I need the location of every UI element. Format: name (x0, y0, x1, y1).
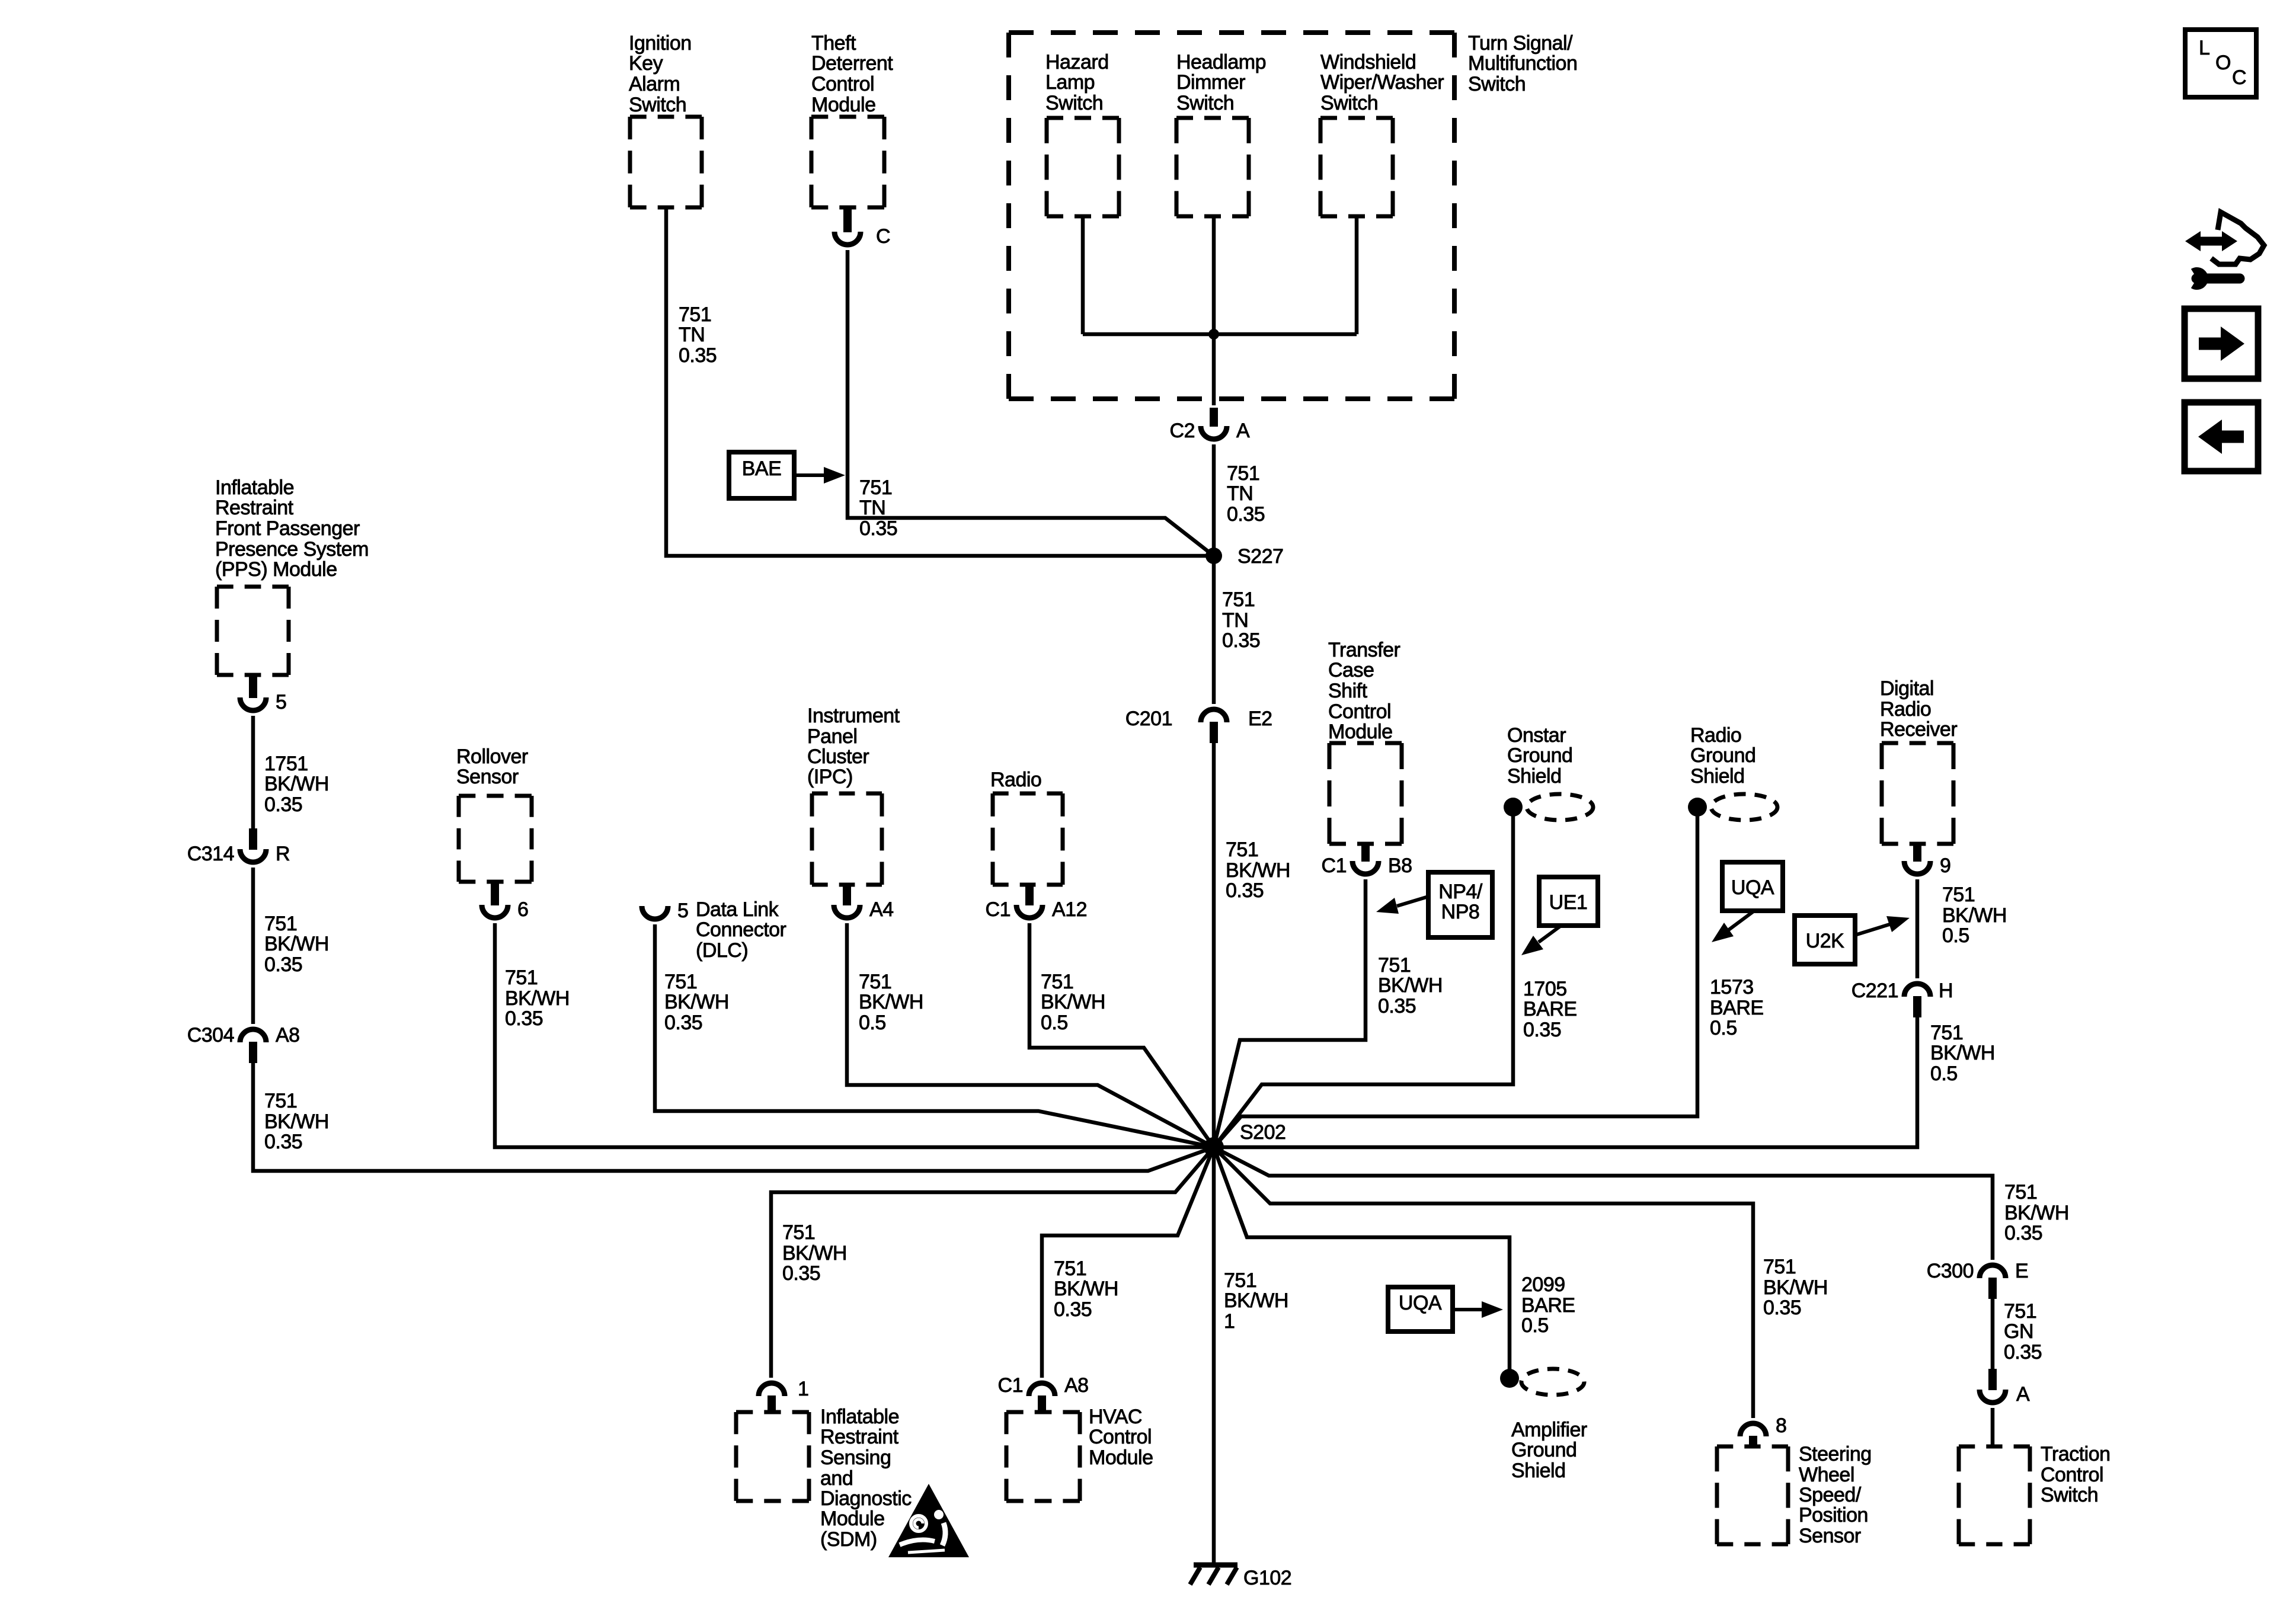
svg-text:0.35: 0.35 (1763, 1297, 1801, 1319)
svg-text:BARE: BARE (1523, 998, 1577, 1020)
label: Inflatable Restraint Sensing and Diagnostic Module (SDM) (820, 1406, 912, 1551)
svg-text:Headlamp: Headlamp (1176, 51, 1266, 73)
component: Transfer Case Shift Control Module (dashed box) (1329, 743, 1402, 844)
connector C314 pin R (240, 828, 266, 862)
svg-text:Sensing: Sensing (820, 1446, 891, 1469)
svg-text:A: A (2016, 1383, 2030, 1406)
arrow: U2K to receiver wire (1855, 916, 1910, 935)
component: Headlamp Dimmer Switch (dashed box) (1176, 118, 1249, 216)
svg-text:Panel: Panel (807, 725, 857, 748)
connector pin 5 (PPS module) (240, 675, 266, 710)
svg-text:Presence System: Presence System (215, 538, 369, 561)
label: Rollover Sensor (456, 745, 528, 788)
svg-text:Module: Module (820, 1507, 885, 1530)
svg-text:Inflatable: Inflatable (820, 1406, 899, 1428)
svg-text:BK/WH: BK/WH (1942, 904, 2007, 927)
svg-text:C304: C304 (187, 1024, 234, 1046)
svg-text:BK/WH: BK/WH (1763, 1276, 1828, 1299)
splice S227 (1205, 548, 1222, 564)
wire: splice S202 to HVAC control module (751 BK/WH) (1042, 1147, 1214, 1378)
svg-text:BK/WH: BK/WH (1041, 991, 1105, 1013)
svg-text:BK/WH: BK/WH (664, 991, 729, 1013)
wire: theft deterrent module to splice S227 (751 TN) (848, 250, 1214, 556)
connector C221 pin H (1904, 984, 1930, 1017)
icon: back arrow box (2185, 402, 2258, 471)
svg-text:NP4/: NP4/ (1438, 881, 1483, 903)
svg-text:A8: A8 (1064, 1374, 1089, 1397)
wire: splice S202 to ground G102 (751 BK/WH 1) (1212, 1147, 1216, 1563)
svg-text:0.5: 0.5 (859, 1012, 886, 1034)
svg-text:Module: Module (1328, 721, 1393, 743)
node: radio ground shield terminal (1688, 798, 1707, 817)
svg-text:0.35: 0.35 (1226, 879, 1264, 902)
label: wire 1705 BARE 0.35 (1523, 978, 1577, 1041)
svg-text:Radio: Radio (990, 769, 1041, 791)
svg-text:751: 751 (679, 303, 711, 326)
svg-text:(PPS) Module: (PPS) Module (215, 558, 337, 581)
svg-text:HVAC: HVAC (1089, 1406, 1142, 1428)
wire: digital radio receiver to C221 (751 BK/WH) (1916, 879, 1920, 978)
svg-text:BK/WH: BK/WH (1226, 859, 1290, 882)
svg-text:Lamp: Lamp (1045, 71, 1095, 94)
svg-text:G102: G102 (1243, 1567, 1291, 1589)
code box BAE (729, 452, 794, 498)
svg-text:751: 751 (859, 476, 892, 499)
connector C1 pin A8 (HVAC) (1029, 1383, 1055, 1413)
icon: SIR airbag warning triangle (888, 1484, 969, 1557)
svg-text:A: A (1236, 420, 1250, 442)
svg-text:B8: B8 (1388, 854, 1412, 877)
connector pin 9 (digital radio receiver) (1904, 844, 1930, 874)
arrow: UQA to radio shield wire (1712, 911, 1754, 942)
svg-text:1: 1 (798, 1378, 808, 1400)
label: wire 751 BK/WH 0.5 (radio) (1041, 971, 1105, 1034)
svg-text:Module: Module (1089, 1446, 1153, 1469)
svg-text:UQA: UQA (1399, 1292, 1442, 1314)
component: Traction Control Switch (dashed box) (1959, 1446, 2030, 1544)
svg-text:0.35: 0.35 (1523, 1019, 1561, 1041)
wire: splice S202 to C300 (751 BK/WH) (1214, 1147, 1993, 1260)
node: Onstar ground shield terminal (1504, 798, 1523, 817)
label: Steering Wheel Speed/Position Sensor (1799, 1443, 1872, 1547)
wire: Onstar ground shield to splice S202 (1705 BARE) (1214, 807, 1513, 1147)
svg-text:751: 751 (1930, 1022, 1963, 1044)
svg-text:751: 751 (505, 966, 538, 989)
connector pin A4 (IPC) (834, 885, 860, 918)
svg-text:751: 751 (1942, 884, 1975, 906)
svg-text:BK/WH: BK/WH (1378, 974, 1443, 997)
label: wire 751 BK/WH 0.5 (C221 to S202) (1930, 1022, 1995, 1085)
svg-text:UE1: UE1 (1549, 891, 1588, 914)
label: wire 1573 BARE 0.5 (1710, 976, 1764, 1039)
svg-text:1751: 1751 (264, 753, 308, 775)
svg-text:NP8: NP8 (1441, 901, 1480, 923)
connector C300 pin E (1980, 1265, 2006, 1299)
svg-text:Control: Control (2041, 1464, 2103, 1486)
connector pin A (traction control switch) (1980, 1369, 2006, 1403)
connector pin 6 (rollover sensor) (482, 882, 508, 918)
label: Hazard Lamp Switch (1045, 51, 1109, 114)
svg-text:Sensor: Sensor (1799, 1525, 1861, 1547)
wire: pin A to traction control switch box (1991, 1408, 1995, 1446)
svg-text:E2: E2 (1248, 708, 1272, 730)
svg-text:0.35: 0.35 (505, 1007, 543, 1030)
svg-text:BK/WH: BK/WH (264, 1110, 329, 1133)
shield symbol: Onstar ground (dashed ellipse) (1527, 794, 1593, 820)
svg-text:(IPC): (IPC) (807, 766, 853, 788)
svg-text:Onstar: Onstar (1507, 724, 1566, 747)
label: Ignition Key Alarm Switch (629, 32, 692, 116)
svg-text:0.35: 0.35 (664, 1012, 702, 1034)
label: Digital Radio Receiver (1880, 677, 1957, 741)
connector C304 pin A8 (240, 1029, 266, 1063)
svg-text:Steering: Steering (1799, 1443, 1872, 1465)
wire: hazard lamp switch down to bus (1081, 216, 1085, 334)
svg-text:TN: TN (859, 497, 885, 519)
icon: LOC reference box (2185, 30, 2256, 97)
label: wire 751 BK/WH 0.5 (IPC) (859, 971, 923, 1034)
svg-text:BARE: BARE (1710, 997, 1764, 1019)
component: Windshield Wiper/Washer Switch (dashed box) (1320, 118, 1393, 216)
label: wire 1751 BK/WH 0.35 (264, 753, 329, 816)
svg-text:Wiper/Washer: Wiper/Washer (1320, 71, 1444, 94)
wire: radio to splice S202 (751 BK/WH) (1029, 923, 1214, 1147)
wire: internal bus joining three switches (1083, 332, 1357, 337)
svg-text:GN: GN (2004, 1320, 2033, 1343)
svg-text:1: 1 (1224, 1310, 1235, 1333)
label: wire 751 BK/WH 0.35 (C201 to S202) (1226, 838, 1290, 902)
svg-text:1705: 1705 (1523, 978, 1567, 1000)
svg-text:751: 751 (264, 1090, 297, 1112)
svg-text:Multifunction: Multifunction (1468, 52, 1577, 75)
label: Onstar Ground Shield (1507, 724, 1572, 788)
svg-text:751: 751 (1227, 462, 1259, 485)
svg-text:Ground: Ground (1507, 744, 1572, 767)
label: Transfer Case Shift Control Module (1328, 639, 1400, 743)
wire: radio ground shield to splice S202 (1573 BARE) (1214, 807, 1697, 1147)
component: Rollover Sensor (dashed box) (459, 796, 532, 882)
svg-text:Shield: Shield (1690, 765, 1745, 788)
wire: IPC to splice S202 (751 BK/WH) (847, 923, 1214, 1147)
label: wire 751 BK/WH 0.35 (rollover) (505, 966, 570, 1030)
wire: transfer case module to splice S202 (751 BK/WH) (1214, 879, 1366, 1147)
svg-text:BK/WH: BK/WH (264, 933, 329, 955)
label: wire 751 TN 0.35 (S227 to C201) (1222, 588, 1260, 652)
svg-text:H: H (1939, 980, 1953, 1002)
svg-text:Deterrent: Deterrent (811, 52, 893, 75)
code box UQA (radio ground) (1722, 862, 1783, 911)
component: Instrument Panel Cluster (dashed box) (812, 793, 882, 885)
svg-text:Traction: Traction (2041, 1443, 2110, 1465)
svg-text:C2: C2 (1170, 420, 1195, 442)
svg-text:Switch: Switch (1045, 92, 1103, 114)
svg-text:Switch: Switch (1468, 73, 1526, 95)
svg-text:0.5: 0.5 (1942, 924, 1969, 947)
wire: S227 to connector C201 (1212, 556, 1216, 704)
svg-text:0.35: 0.35 (1227, 503, 1265, 526)
svg-text:A12: A12 (1052, 898, 1087, 921)
wire: C221 to splice S202 (751 BK/WH) (1214, 1017, 1917, 1147)
svg-text:E: E (2015, 1260, 2028, 1282)
svg-text:BK/WH: BK/WH (1930, 1042, 1995, 1064)
svg-text:Instrument: Instrument (807, 705, 900, 727)
node: amplifier ground shield terminal (1500, 1369, 1519, 1388)
svg-text:BK/WH: BK/WH (505, 987, 570, 1010)
svg-text:C1: C1 (1322, 854, 1347, 877)
svg-text:S227: S227 (1237, 545, 1283, 568)
svg-text:(SDM): (SDM) (820, 1528, 877, 1551)
label: Theft Deterrent Control Module (811, 32, 893, 116)
svg-text:0.5: 0.5 (1710, 1017, 1737, 1039)
label: wire 751 BK/WH 0.35 (HVAC) (1054, 1257, 1118, 1321)
component: PPS Module (dashed box) (217, 587, 289, 675)
wire: C201 to splice S202 (751 BK/WH) (1212, 743, 1216, 1147)
svg-text:Hazard: Hazard (1045, 51, 1109, 73)
svg-text:Amplifier: Amplifier (1511, 1419, 1587, 1441)
svg-text:TN: TN (1227, 482, 1253, 505)
label: Windshield Wiper/Washer Switch (1320, 51, 1444, 114)
svg-text:and: and (820, 1467, 853, 1490)
svg-text:Switch: Switch (629, 94, 686, 116)
svg-text:TN: TN (1222, 609, 1248, 632)
svg-text:Control: Control (811, 73, 874, 95)
label: wire 751 BK/WH 0.35 (DLC) (664, 971, 729, 1034)
svg-text:751: 751 (782, 1221, 815, 1244)
svg-text:A4: A4 (869, 898, 894, 921)
svg-text:Position: Position (1799, 1504, 1868, 1526)
label: Instrument Panel Cluster (IPC) (807, 705, 900, 788)
svg-text:2099: 2099 (1521, 1273, 1565, 1296)
svg-text:Ignition: Ignition (629, 32, 692, 55)
svg-text:0.5: 0.5 (1930, 1062, 1958, 1085)
arrow: BAE to theft wire (794, 467, 845, 484)
svg-text:BK/WH: BK/WH (1054, 1278, 1118, 1300)
svg-text:Restraint: Restraint (215, 497, 294, 519)
svg-text:Windshield: Windshield (1320, 51, 1416, 73)
wire: headlamp dimmer switch down to connector C2 (1212, 216, 1216, 405)
connector C1 pin B8 (transfer case) (1352, 844, 1379, 874)
svg-text:(DLC): (DLC) (696, 939, 748, 962)
svg-text:C1: C1 (986, 898, 1011, 921)
component: Steering Wheel Speed/Position Sensor (dashed box) (1717, 1446, 1788, 1544)
component: Digital Radio Receiver (dashed box) (1882, 743, 1953, 844)
svg-text:Theft: Theft (811, 32, 856, 55)
svg-text:Wheel: Wheel (1799, 1464, 1854, 1486)
label: wire 751 BK/WH 0.35 (C304 to S202) (264, 1090, 329, 1153)
component: Ignition Key Alarm Switch (dashed box) (630, 117, 702, 207)
shield symbol: radio ground (dashed ellipse) (1711, 794, 1777, 820)
svg-text:Connector: Connector (696, 918, 786, 941)
wire: C314 to C304 (751 BK/WH) (251, 868, 255, 1024)
svg-text:R: R (276, 843, 290, 865)
svg-text:BK/WH: BK/WH (264, 773, 329, 795)
svg-text:751: 751 (1378, 954, 1411, 977)
svg-text:0.35: 0.35 (1054, 1298, 1092, 1321)
svg-text:C1: C1 (998, 1374, 1023, 1397)
svg-text:Cluster: Cluster (807, 745, 869, 768)
svg-text:751: 751 (664, 971, 697, 993)
label: wire 751 TN 0.35 (theft) (859, 476, 897, 540)
svg-text:0.35: 0.35 (859, 517, 897, 540)
svg-text:0.35: 0.35 (1222, 629, 1260, 652)
svg-text:751: 751 (1041, 971, 1073, 993)
wire: splice S202 to amplifier ground shield (2099 BARE) (1214, 1147, 1510, 1378)
svg-text:Data Link: Data Link (696, 898, 779, 921)
svg-text:751: 751 (1222, 588, 1255, 611)
svg-text:C300: C300 (1927, 1260, 1974, 1282)
svg-text:TN: TN (679, 324, 705, 346)
svg-text:0.35: 0.35 (2004, 1222, 2042, 1244)
svg-text:Digital: Digital (1880, 677, 1934, 700)
component: Theft Deterrent Control Module (dashed box) (811, 117, 884, 207)
svg-text:Shield: Shield (1507, 765, 1562, 788)
label: Turn Signal/Multifunction Switch (1468, 32, 1577, 95)
svg-text:751: 751 (1054, 1257, 1086, 1280)
svg-text:C: C (876, 225, 890, 248)
junction: switch bus junction (1208, 329, 1219, 340)
label: wire 751 TN 0.35 (C2 to S227) (1227, 462, 1265, 526)
label: wire 751 BK/WH 1 (1224, 1269, 1288, 1333)
arrow: NP4/NP8 to transfer case wire (1376, 897, 1428, 914)
svg-text:Control: Control (1089, 1426, 1152, 1448)
label: wire 751 BK/WH 0.35 (steering sensor) (1763, 1256, 1828, 1319)
svg-text:Switch: Switch (2041, 1484, 2098, 1506)
svg-text:Turn Signal/: Turn Signal/ (1468, 32, 1573, 55)
svg-text:C314: C314 (187, 843, 234, 865)
svg-text:BK/WH: BK/WH (2004, 1202, 2069, 1224)
svg-text:751: 751 (1763, 1256, 1796, 1278)
svg-text:Alarm: Alarm (629, 73, 680, 95)
code box U2K (1795, 916, 1855, 964)
svg-text:751: 751 (2004, 1181, 2037, 1204)
connector C2 pin A (1201, 408, 1227, 439)
label: Traction Control Switch (2041, 1443, 2110, 1506)
svg-text:0.35: 0.35 (264, 793, 302, 816)
svg-text:O: O (2215, 52, 2231, 74)
svg-text:Control: Control (1328, 700, 1391, 723)
component: Radio (dashed box) (993, 793, 1063, 885)
svg-text:UQA: UQA (1731, 876, 1774, 899)
svg-text:Case: Case (1328, 659, 1374, 681)
wire: PPS module to C314 (1751 BK/WH) (251, 716, 255, 828)
svg-text:C201: C201 (1125, 708, 1172, 730)
svg-text:BK/WH: BK/WH (1224, 1289, 1288, 1312)
svg-text:BK/WH: BK/WH (859, 991, 923, 1013)
svg-text:Radio: Radio (1880, 698, 1931, 721)
svg-text:A8: A8 (276, 1024, 300, 1046)
svg-text:0.35: 0.35 (782, 1262, 820, 1285)
svg-text:U2K: U2K (1806, 930, 1844, 952)
wire: C300 to traction control switch (751 GN) (1991, 1299, 1995, 1369)
svg-text:0.5: 0.5 (1521, 1314, 1549, 1337)
svg-text:S202: S202 (1240, 1121, 1285, 1144)
svg-text:Receiver: Receiver (1880, 718, 1957, 741)
label: Amplifier Ground Shield (1511, 1419, 1587, 1482)
svg-text:0.35: 0.35 (264, 953, 302, 976)
arrow: UE1 to Onstar shield wire (1521, 926, 1561, 955)
shield symbol: amplifier ground (dashed ellipse) (1521, 1369, 1584, 1395)
label: Headlamp Dimmer Switch (1176, 51, 1266, 114)
wire: DLC to splice S202 (751 BK/WH) (655, 924, 1214, 1147)
svg-text:Inflatable: Inflatable (215, 476, 294, 499)
code box NP4/NP8 (1428, 872, 1492, 937)
label: Radio Ground Shield (1690, 724, 1755, 788)
svg-text:Radio: Radio (1690, 724, 1741, 747)
svg-text:0.5: 0.5 (1041, 1012, 1068, 1034)
label: wire 751 BK/WH 0.35 (to C300) (2004, 1181, 2069, 1244)
wire: C304 to splice S202 (751 BK/WH) (253, 1063, 1214, 1171)
svg-text:BAE: BAE (742, 457, 782, 480)
svg-text:Dimmer: Dimmer (1176, 71, 1245, 94)
svg-text:Diagnostic: Diagnostic (820, 1487, 912, 1510)
component: Hazard Lamp Switch (dashed box) (1047, 118, 1119, 216)
label: Data Link Connector (DLC) (696, 898, 786, 962)
svg-text:Speed/: Speed/ (1799, 1484, 1862, 1506)
icon: diagnostic information (arrows, vehicle outline, wrench) (2185, 212, 2264, 286)
svg-text:751: 751 (2004, 1300, 2036, 1323)
svg-text:9: 9 (1940, 854, 1950, 877)
svg-text:BARE: BARE (1521, 1294, 1575, 1317)
label: wire 751 TN 0.35 (ignition) (679, 303, 717, 367)
svg-text:Switch: Switch (1320, 92, 1378, 114)
svg-text:Key: Key (629, 52, 663, 75)
svg-text:0.35: 0.35 (264, 1131, 302, 1153)
label: wire 751 GN 0.35 (2004, 1300, 2042, 1363)
icon: forward arrow box (2185, 309, 2258, 379)
svg-text:0.35: 0.35 (1378, 995, 1416, 1017)
label: wire 751 BK/WH 0.5 (receiver) (1942, 884, 2007, 947)
svg-text:C: C (2232, 66, 2246, 89)
svg-text:Switch: Switch (1176, 92, 1234, 114)
wire: C2 to splice S227 (751 TN) (1212, 444, 1216, 556)
label: wire 751 BK/WH 0.35 (transfer case) (1378, 954, 1443, 1017)
svg-text:C221: C221 (1851, 980, 1898, 1002)
svg-text:Shift: Shift (1328, 680, 1368, 702)
wire: rollover sensor to splice S202 (751 BK/WH) (495, 923, 1214, 1147)
svg-text:L: L (2199, 37, 2209, 59)
svg-text:Module: Module (811, 94, 876, 116)
component: HVAC Control Module (dashed box) (1006, 1412, 1080, 1501)
label: wire 751 BK/WH 0.35 (SDM) (782, 1221, 847, 1285)
svg-text:0.35: 0.35 (2004, 1341, 2042, 1363)
label: HVAC Control Module (1089, 1406, 1153, 1469)
svg-text:1573: 1573 (1710, 976, 1754, 998)
svg-text:751: 751 (1226, 838, 1258, 861)
svg-text:6: 6 (517, 898, 528, 921)
connector pin 1 (SDM) (759, 1383, 785, 1413)
ground G102 (1190, 1565, 1237, 1585)
svg-text:BK/WH: BK/WH (782, 1242, 847, 1265)
svg-text:Shield: Shield (1511, 1459, 1566, 1482)
svg-text:751: 751 (264, 913, 297, 935)
connector pin 8 (steering wheel sensor) (1740, 1423, 1766, 1448)
svg-text:0.35: 0.35 (679, 344, 717, 367)
svg-text:751: 751 (1224, 1269, 1256, 1292)
svg-text:Ground: Ground (1511, 1439, 1576, 1461)
connector pin 5 (data link connector DLC) (642, 906, 668, 919)
connector C1 pin A12 (radio) (1016, 885, 1043, 918)
svg-text:Sensor: Sensor (456, 766, 519, 788)
splice S202 (1204, 1137, 1224, 1157)
connector C201 pin E2 (1201, 709, 1227, 743)
wire: windshield wiper/washer switch down to bus (1355, 216, 1359, 334)
arrow: UQA to amplifier shield wire (1453, 1301, 1503, 1318)
svg-text:Restraint: Restraint (820, 1426, 899, 1448)
connector C (theft deterrent module) (834, 207, 861, 245)
svg-text:Ground: Ground (1690, 744, 1755, 767)
component: SDM (dashed box) (736, 1412, 809, 1501)
label: Inflatable Restraint Front Passenger Presence System (PPS) Module (215, 476, 369, 581)
